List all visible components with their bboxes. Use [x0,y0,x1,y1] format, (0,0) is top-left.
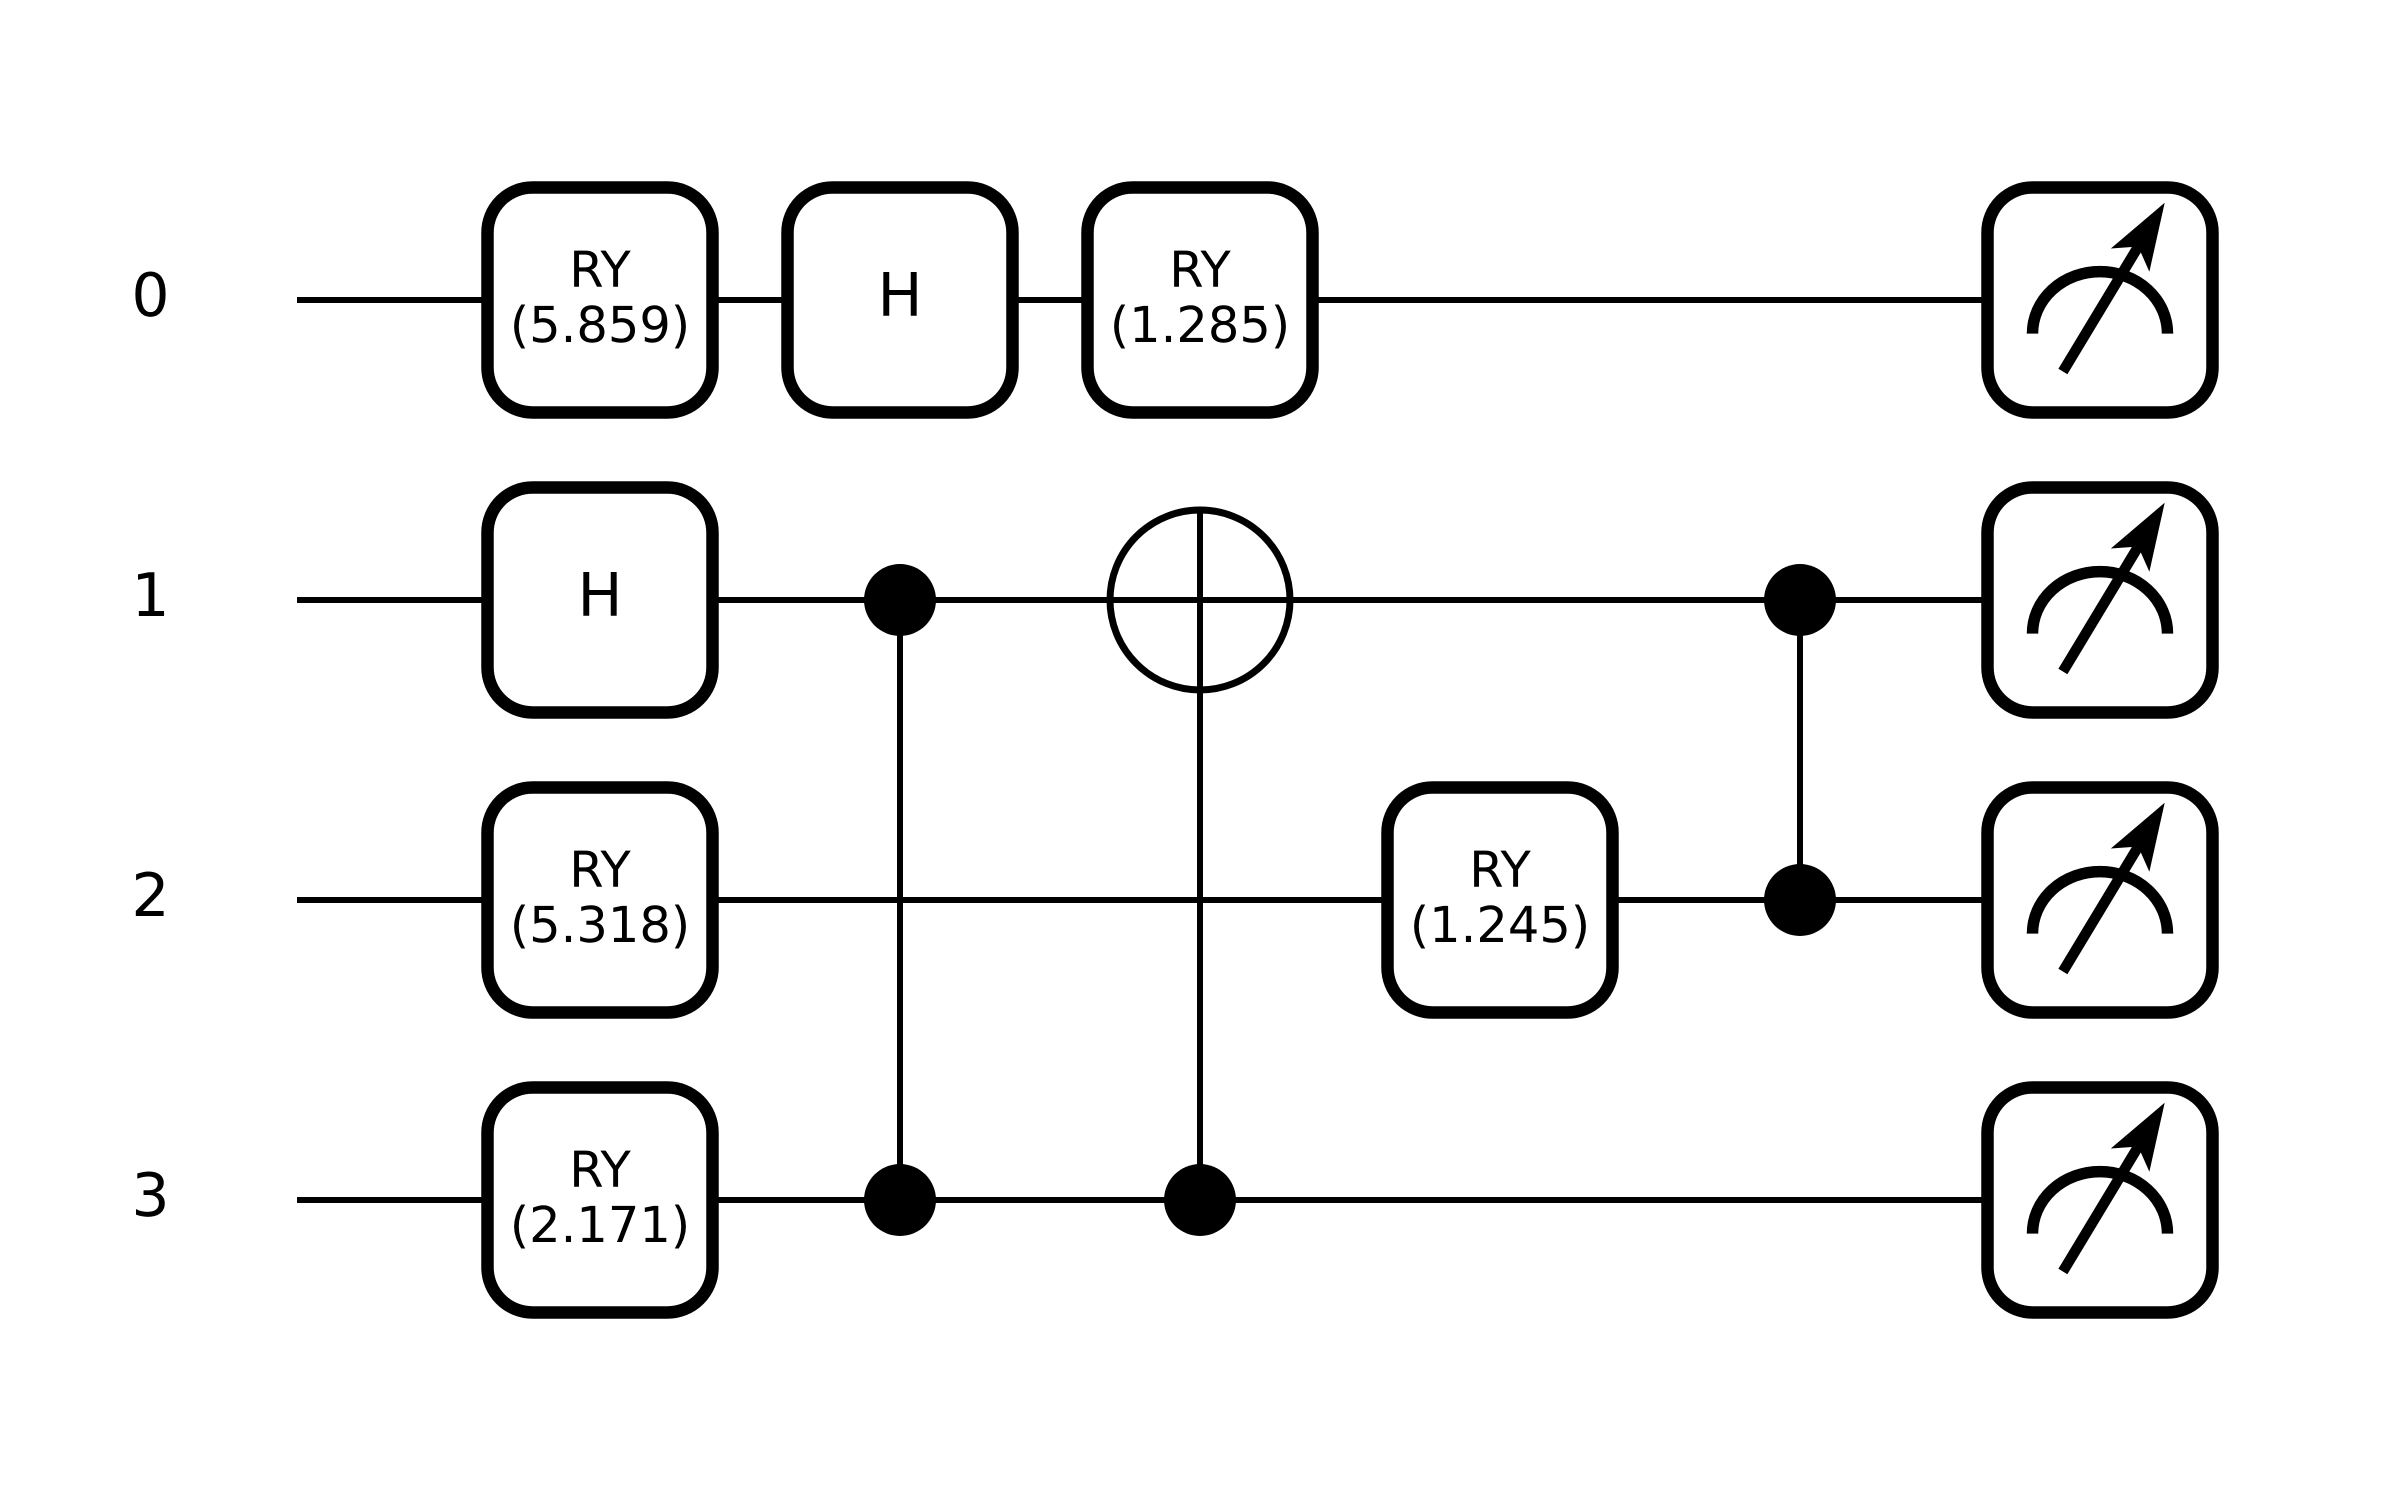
gate RY(2.171) on q3 [488,1088,713,1313]
qubit label 3 [136,1171,165,1216]
wire 1 [297,597,2100,603]
wire 2 [297,897,2100,903]
CZ control dot q3 [864,1164,936,1236]
gate RY(1.285) on q0 [1088,188,1313,413]
measurement box q0 [1988,188,2213,413]
CZ control dot q2 [1764,864,1836,936]
measurement box q1 [1988,488,2213,713]
CZ connector wire q1-q3 (layer x=900) [897,600,903,1200]
gate H on q0 [788,188,1013,413]
wire 0 [297,297,2100,303]
CZ connector wire q1-q2 (layer x=1800) [1797,600,1803,900]
gate H on q1 [488,488,713,713]
CZ control dot q1 (layer x=1800) [1764,564,1836,636]
gate RY(5.318) on q2 [488,788,713,1013]
gate RY(1.245) on q2 [1388,788,1613,1013]
measurement box q2 [1988,788,2213,1013]
measurement box q3 [1988,1088,2213,1313]
CNOT connector wire q3-q1 (layer x=1200) [1197,510,1203,1200]
CNOT control dot q3 [1164,1164,1236,1236]
wire 3 [297,1197,2100,1203]
gate RY(5.859) on q0 [488,188,713,413]
qubit label 2 [136,871,164,916]
CZ control dot q1 [864,564,936,636]
qubit label 0 [135,271,165,316]
qubit label 1 [138,572,164,616]
CNOT target (XOR circle) q1 [1110,510,1290,690]
